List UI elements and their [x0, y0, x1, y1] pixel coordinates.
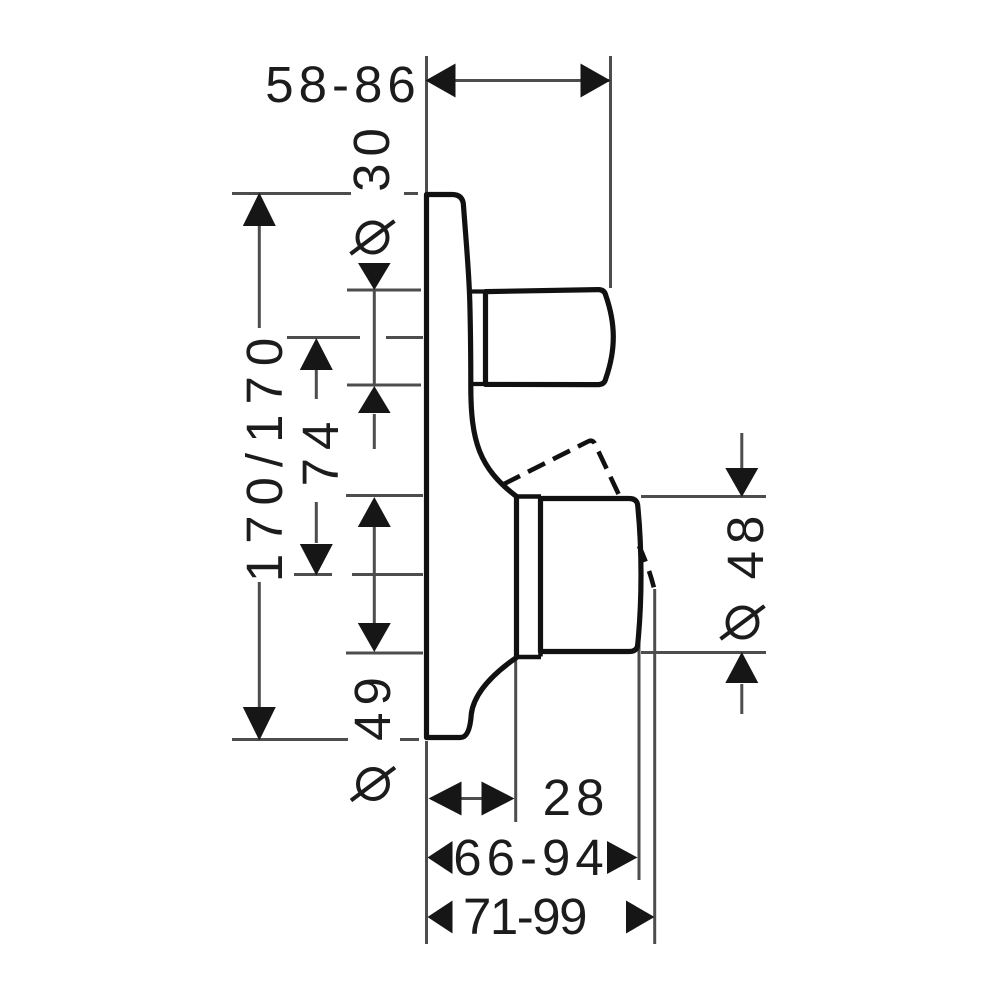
arrow d48 bottom (up) — [725, 652, 758, 683]
svg-text:74: 74 — [292, 414, 349, 487]
label d49 diameter symbol — [351, 768, 395, 801]
extension line wall plane bottom — [425, 741, 428, 944]
dashed rotated knob outline upper — [503, 441, 619, 495]
handle (upper, side view) — [486, 290, 614, 385]
arrow d30 top (down) — [358, 263, 391, 290]
dimension d49 line — [373, 527, 376, 623]
svg-text:30: 30 — [343, 121, 400, 192]
extension line handle bottom — [347, 384, 421, 387]
dimension line 28 — [431, 797, 511, 800]
handle collar bottom edge — [469, 382, 487, 386]
arrow 28 left — [429, 782, 462, 816]
svg-text:58-86: 58-86 — [265, 56, 420, 113]
extension line knob front rotated — [653, 589, 656, 944]
extension line knob top right — [641, 495, 766, 498]
svg-text:49: 49 — [344, 670, 401, 741]
extension line plate bottom dash — [400, 738, 419, 741]
arrow 58-86 left — [426, 64, 456, 98]
arrow 28 right — [482, 782, 515, 816]
label d48 diameter symbol — [721, 606, 765, 639]
extension line handle centerline right — [386, 336, 423, 339]
dimension 170/170 lower tail — [258, 582, 261, 708]
arrow 74 bottom (down) — [300, 544, 333, 576]
svg-text:71-99: 71-99 — [463, 888, 586, 945]
arrow 170 bottom (down) — [243, 707, 276, 741]
extension line plate top left — [232, 192, 351, 195]
knob collar right boundary — [538, 497, 543, 657]
svg-text:48: 48 — [717, 509, 774, 580]
dimension d48 top tail — [740, 433, 743, 469]
knob (lower, side view) — [541, 499, 642, 652]
dashed rotated knob outline lower right — [639, 546, 654, 588]
arrow 58-86 right — [581, 64, 611, 98]
extension line handle front — [609, 56, 612, 288]
arrow 66-94 left — [428, 841, 453, 874]
dimension 170/170 upper tail — [258, 225, 261, 328]
dimension line d30 — [373, 290, 376, 385]
arrow d30 bottom (up) — [358, 386, 391, 413]
dimension 74 lower tail — [315, 502, 318, 543]
arrow d49 top (up) — [358, 497, 391, 527]
extension line knob bottom left — [346, 652, 423, 655]
extension line knob centerline left — [294, 573, 332, 576]
arrow 71-99 left — [428, 901, 453, 934]
thin extension/dimension lines — [232, 56, 766, 944]
label d30 diameter symbol — [351, 221, 395, 254]
dimension d48 bottom tail — [740, 684, 743, 714]
extension line knob front — [638, 589, 641, 880]
arrow 66-94 right — [607, 841, 638, 874]
tail below d30 lower arrow — [373, 414, 376, 449]
extension line plate top dash — [404, 192, 418, 195]
arrow d49 bottom (down) — [358, 623, 391, 652]
dimension line 58-86 — [428, 79, 609, 82]
arrow d48 top (down) — [725, 468, 758, 497]
extension line knob top left — [346, 494, 423, 497]
dimension 74 upper tail — [315, 370, 318, 399]
handle collar top edge — [469, 289, 487, 293]
svg-text:28: 28 — [543, 769, 610, 826]
svg-text:170/170: 170/170 — [236, 328, 293, 582]
extension line handle centerline left — [287, 336, 360, 339]
knob collar top edge — [514, 494, 541, 499]
extension line valve face — [514, 658, 517, 822]
escutcheon plate (side profile) — [427, 195, 517, 738]
arrow 71-99 right — [626, 901, 655, 934]
extension line wall plane top — [425, 56, 428, 193]
arrow 170 top (up) — [243, 193, 276, 227]
svg-text:66-94: 66-94 — [453, 829, 608, 886]
extension line knob centerline right — [352, 573, 423, 576]
knob collar bottom edge — [514, 655, 541, 660]
arrowheads — [243, 64, 759, 934]
extension line plate bottom left — [232, 738, 348, 741]
arrow 74 top (up) — [300, 338, 333, 370]
extension line knob bottom right — [641, 651, 766, 654]
extension line handle top — [347, 289, 421, 292]
